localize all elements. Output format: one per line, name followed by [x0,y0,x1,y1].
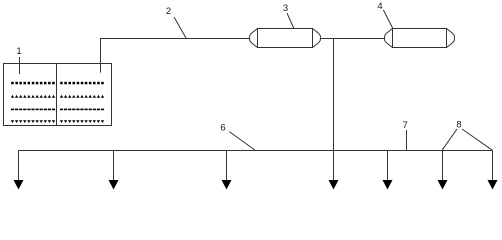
media row (squares) [11,82,104,85]
wire: outlet stem 5 [387,151,389,182]
wire: outlet stem 7 [492,151,494,182]
media row (dashes) [11,109,104,111]
wire: pipe between vessel 3 and vessel 4 [321,38,385,40]
leader line for label 7 [406,130,408,150]
arrow head 5 [383,180,393,190]
leader line for label 4 [383,10,392,29]
svg-text:4: 4 [377,1,382,12]
arrow head 1 [14,180,24,190]
svg-text:6: 6 [220,123,225,134]
media row (down triangles) [11,120,104,123]
tank T1 (two-compartment basin) [4,64,112,126]
wire: pipe 2 horizontal to vessel 3 [100,38,250,40]
leader line for label 6 [229,132,255,150]
svg-text:2: 2 [166,6,171,17]
media row (up triangles) [11,95,104,98]
arrow head 4 [329,180,339,190]
svg-text:7: 7 [403,120,408,131]
arrow head 6 [438,180,448,190]
wire: drop line from inter-vessel pipe to arrow [333,39,335,181]
wire: inlet pipe drop into tank [100,39,102,73]
arrow head 2 [109,180,119,190]
tank divider [56,64,58,126]
wire: outlet stem 3 [226,151,228,182]
svg-text:1: 1 [16,46,21,57]
wire: outlet stem 1 [18,151,20,182]
wire: outlet stem 2 [113,151,115,182]
leader line for label 8 (left branch) [442,129,457,150]
svg-text:3: 3 [283,3,288,14]
leader line for label 1 [19,57,21,74]
leader line for label 2 [174,17,186,39]
leader line for label 3 [287,13,294,29]
wire: outlet stem 6 [442,151,444,182]
vessel 3 (horizontal cylinder) [250,29,321,48]
vessel 4 (horizontal cylinder) [385,29,455,48]
svg-text:8: 8 [456,120,461,131]
leader line for label 8 (right branch) [462,129,493,150]
arrow head 3 [222,180,232,190]
arrow head 7 [488,180,498,190]
wire: distribution manifold 6 [19,150,493,152]
